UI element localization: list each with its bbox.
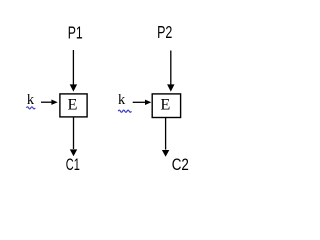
- label C2: [172, 156, 189, 175]
- wire E1 to C1 (arrow down): [70, 117, 77, 156]
- label C1: [66, 156, 80, 175]
- svg-text:C1: C1: [66, 156, 80, 175]
- block E2: [152, 94, 180, 118]
- label P1: [68, 23, 83, 43]
- svg-text:P2: P2: [157, 23, 172, 43]
- svg-text:C2: C2: [172, 156, 189, 175]
- key label k1: [27, 92, 35, 108]
- svg-text:k: k: [118, 92, 126, 108]
- wire k2 to E2 (arrow right): [133, 100, 152, 105]
- svg-text:P1: P1: [68, 23, 83, 43]
- wire P2 to E2 (arrow down): [167, 51, 174, 92]
- wire P1 to E1 (arrow down): [70, 50, 77, 92]
- svg-text:E: E: [68, 95, 78, 114]
- wire E2 to C2 (arrow down): [162, 118, 169, 157]
- wire k1 to E1 (arrow right): [41, 100, 58, 105]
- svg-text:E: E: [160, 95, 170, 114]
- svg-text:k: k: [27, 92, 35, 108]
- label P2: [157, 23, 172, 43]
- block E1: [60, 94, 87, 117]
- key label k2: [118, 92, 126, 108]
- spellcheck squiggle under k2: [118, 110, 131, 112]
- spellcheck squiggle under k1: [26, 107, 35, 109]
